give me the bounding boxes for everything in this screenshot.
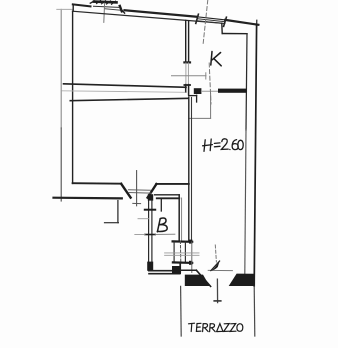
wire: faint band middle pencil line xyxy=(62,91,185,93)
door D1 jamb lines (K left wall opening) xyxy=(186,63,189,85)
window W3 center leaf line xyxy=(136,171,138,206)
wall: K left wall upper (double) xyxy=(184,20,190,62)
wire: dashed section line through K xyxy=(209,63,211,104)
wall: B room top wall xyxy=(155,194,180,196)
wall: below shaft xyxy=(179,263,181,272)
node label TERRAZZO xyxy=(189,323,243,332)
node label B (bathroom) xyxy=(157,218,167,232)
wall: right outer line xyxy=(254,24,256,286)
door D2 leaf lines xyxy=(210,94,212,118)
door D3 right jamb (splayed, filled) xyxy=(229,274,255,286)
wall: junction block left of K door xyxy=(194,88,202,94)
wall: right inner line (K + corridor) xyxy=(246,34,247,130)
wall: top outer middle segment xyxy=(125,10,198,17)
window W4 ticks on B left wall xyxy=(145,209,155,211)
wall: middle room bottom inner line xyxy=(73,182,122,185)
duct: shaft crossbar lower xyxy=(173,261,192,264)
window W1 (bay on slanted top wall, cropped at image top) xyxy=(90,0,124,13)
door D3 swing leaf xyxy=(211,261,220,271)
wall: top outer right segment xyxy=(225,20,258,25)
wire: terrace left edge xyxy=(180,286,183,336)
wall: K top-right notch step xyxy=(221,23,223,33)
door D2 threshold (K bottom wall opening) xyxy=(201,90,218,92)
wall: B left wall (double) xyxy=(148,200,150,270)
wire: pencil diagonal from window W1 into room xyxy=(103,3,106,22)
window W3 splayed jambs (middle room bottom) xyxy=(121,184,130,198)
node label K (kitchen) xyxy=(211,52,221,66)
window W3 threshold lines xyxy=(128,189,150,192)
wire: dashed section line top (through W1 area) xyxy=(203,0,208,45)
wall: corridor/middle-room partition (double) xyxy=(188,97,190,241)
wall: B right wall xyxy=(178,195,180,241)
wire: outer left wall pencil line xyxy=(57,9,73,201)
window W4 sill pencil lines xyxy=(138,218,149,220)
duct: shaft crossbar upper xyxy=(173,240,193,243)
wire: stub line below bottom wall xyxy=(117,201,119,223)
duct: shaft side lines xyxy=(173,242,175,262)
wire: pencil guideline through door D1 xyxy=(172,75,207,77)
wall: K left wall lower stub xyxy=(184,85,190,95)
wall: band lower line (top of middle room) xyxy=(70,98,188,100)
wall: K notch horizontal xyxy=(222,33,247,35)
wall: K bottom wall right segment xyxy=(218,89,247,93)
wall: bottom outer line of middle room xyxy=(54,197,122,200)
wall: B bottom wall xyxy=(149,270,172,272)
wall: top outer left segment xyxy=(73,4,91,6)
wall: top inner slanted line xyxy=(73,11,222,23)
wall: top-right corner overshoot tick xyxy=(256,20,258,27)
door D3 architrave line over opening xyxy=(208,269,232,271)
door D3 left jamb (splayed, filled) xyxy=(196,270,210,286)
wire: terrace right edge xyxy=(253,286,256,336)
wall: B left wall bottom cap xyxy=(147,262,153,271)
node label H=2.60 xyxy=(203,139,244,152)
wall: band upper line (bottom of top-left room) xyxy=(64,84,187,88)
wire: section line below door D3 xyxy=(216,279,218,302)
wire: hallway pencil guideline pair xyxy=(165,252,199,254)
wall: corridor bottom upper line xyxy=(181,269,197,271)
wall: left inner (dark) xyxy=(72,4,75,183)
window W2 (slanted top wall right) xyxy=(196,14,227,26)
